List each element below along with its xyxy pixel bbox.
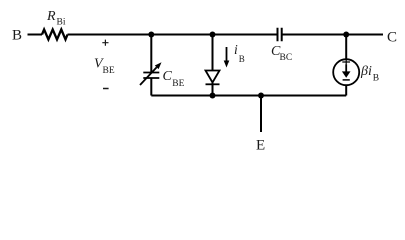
- svg-text:βi: βi: [360, 64, 372, 79]
- V_BE - sign: [103, 88, 109, 90]
- svg-text:i: i: [234, 42, 238, 57]
- svg-text:C: C: [163, 69, 173, 84]
- wire: source branch lower: [345, 85, 347, 96]
- svg-text:C: C: [387, 30, 397, 46]
- svg-text:B: B: [373, 74, 379, 84]
- capacitor C_BE variable arrow: [140, 67, 157, 85]
- node: junction dot at C_BE branch: [148, 32, 154, 38]
- svg-text:B: B: [12, 28, 22, 44]
- wire: C_BE branch lower: [150, 78, 152, 96]
- wire: diode branch lower: [212, 83, 214, 96]
- wire: E stem: [260, 96, 262, 133]
- svg-text:R: R: [46, 9, 56, 24]
- capacitor C_BC plates: [278, 28, 282, 41]
- diode (B-E junction): [206, 71, 220, 83]
- dependent current source beta*i_B: [333, 59, 359, 85]
- svg-text:BE: BE: [103, 66, 115, 76]
- resistor R_Bi: [42, 30, 67, 40]
- capacitor C_BE plates: [143, 73, 159, 79]
- bottom wire (emitter rail): [151, 95, 346, 97]
- wire: source branch upper: [345, 35, 347, 60]
- svg-text:B: B: [239, 54, 245, 64]
- svg-text:E: E: [256, 138, 265, 153]
- wire: C_BE branch upper: [150, 35, 152, 73]
- wire C_BC to terminal C: [282, 34, 383, 36]
- node: junction dot at current source branch: [343, 32, 349, 38]
- current arrow i_B: [226, 47, 228, 62]
- wire resistor to C_BC: [68, 34, 278, 36]
- wire B to resistor: [28, 34, 43, 36]
- node: junction dot E stem: [258, 93, 264, 99]
- svg-text:Bi: Bi: [57, 18, 66, 28]
- svg-text:BE: BE: [172, 79, 184, 89]
- wire: diode branch upper: [212, 35, 214, 71]
- svg-text:BC: BC: [280, 53, 293, 63]
- V_BE + sign: [102, 40, 108, 46]
- node: junction dot at diode branch: [210, 32, 216, 38]
- node: junction dot diode bottom: [210, 93, 216, 99]
